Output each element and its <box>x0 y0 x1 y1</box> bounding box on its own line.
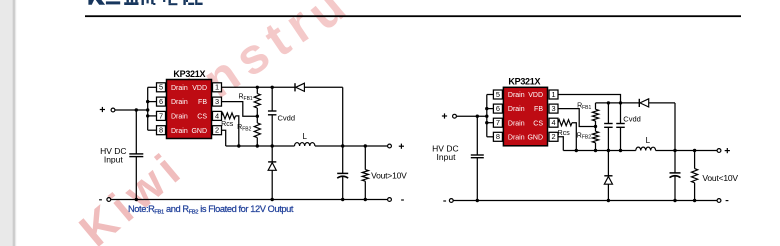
svg-text:Drain: Drain <box>508 134 525 141</box>
svg-text:5: 5 <box>159 83 163 92</box>
svg-text:6: 6 <box>159 97 163 106</box>
svg-text:Cvdd: Cvdd <box>278 113 296 122</box>
svg-text:5: 5 <box>496 90 500 99</box>
svg-text:7: 7 <box>159 111 163 120</box>
svg-text:RFB1: RFB1 <box>238 94 252 102</box>
svg-text:1: 1 <box>551 90 555 99</box>
svg-text:KP321X: KP321X <box>508 77 540 87</box>
svg-text:RFB2: RFB2 <box>577 132 591 140</box>
svg-text:CS: CS <box>533 120 543 127</box>
svg-text:Input: Input <box>104 155 124 165</box>
svg-text:Vout>10V: Vout>10V <box>371 171 407 181</box>
svg-text:7: 7 <box>496 118 500 127</box>
svg-text:Rcs: Rcs <box>221 121 234 128</box>
svg-text:KP321X: KP321X <box>173 69 205 79</box>
svg-text:FB: FB <box>198 99 207 106</box>
svg-text:6: 6 <box>496 104 500 113</box>
svg-text:8: 8 <box>496 132 500 141</box>
svg-text:Drain: Drain <box>171 85 188 92</box>
svg-text:CS: CS <box>197 114 207 121</box>
svg-text:Cvdd: Cvdd <box>623 115 641 124</box>
svg-text:3: 3 <box>551 104 555 113</box>
svg-text:4: 4 <box>551 118 555 127</box>
svg-text:8: 8 <box>159 126 163 135</box>
svg-text:3: 3 <box>215 97 219 106</box>
svg-text:Note:RFB1 and RFB2 is Floated: Note:RFB1 and RFB2 is Floated for 12V Ou… <box>128 204 294 216</box>
svg-text:GND: GND <box>191 128 207 135</box>
svg-text:1: 1 <box>215 83 219 92</box>
svg-text:2: 2 <box>551 132 555 141</box>
svg-text:GND: GND <box>527 134 543 141</box>
svg-text:L: L <box>646 136 651 145</box>
svg-text:Drain: Drain <box>171 128 188 135</box>
svg-text:Drain: Drain <box>508 92 525 99</box>
svg-text:L: L <box>302 132 307 141</box>
svg-text:VDD: VDD <box>528 92 543 99</box>
svg-text:Rcs: Rcs <box>558 130 571 137</box>
svg-text:Vout<10V: Vout<10V <box>702 173 738 183</box>
svg-text:4: 4 <box>215 111 219 120</box>
svg-text:VDD: VDD <box>192 85 207 92</box>
svg-text:Drain: Drain <box>508 106 525 113</box>
svg-text:Input: Input <box>437 152 457 162</box>
svg-text:2: 2 <box>215 126 219 135</box>
svg-text:Drain: Drain <box>171 114 188 121</box>
svg-text:FB: FB <box>534 106 543 113</box>
svg-text:Drain: Drain <box>508 120 525 127</box>
svg-text:Drain: Drain <box>171 99 188 106</box>
